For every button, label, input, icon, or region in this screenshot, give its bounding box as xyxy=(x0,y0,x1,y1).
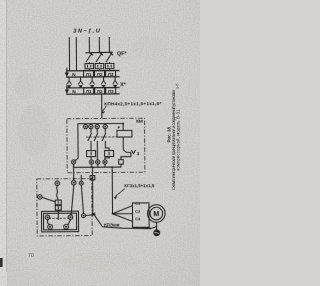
junction node a xyxy=(92,166,94,168)
circuit breaker QF xyxy=(85,52,113,62)
terminal circles top xyxy=(83,124,107,129)
breaker pole box L2 xyxy=(95,63,104,68)
bus wire inside KM bottom xyxy=(74,166,122,168)
wire L1 incoming xyxy=(88,37,90,52)
node fan top of KM xyxy=(83,122,123,124)
cable wire to KM box xyxy=(101,94,103,118)
connector row X xyxy=(67,77,118,89)
wire L3 to strip xyxy=(108,62,110,63)
aux contact KM xyxy=(123,150,139,157)
control terminal top 3 xyxy=(79,181,83,185)
wire contact to thermal 2 xyxy=(105,146,109,151)
wire left terminal to button xyxy=(42,197,55,202)
wire thermal1 down xyxy=(90,157,92,160)
control inner panel xyxy=(41,211,78,232)
gland square at box entry xyxy=(90,176,95,180)
control terminal top 1 xyxy=(55,181,60,186)
wire to coil xyxy=(122,123,124,130)
dark mark left edge xyxy=(0,258,3,267)
wire terminal2 to contact xyxy=(71,185,74,215)
wire L1 to strip xyxy=(88,62,90,63)
bottom circle left xyxy=(48,224,53,229)
wire exit control box xyxy=(86,214,96,215)
contactor main contacts KM xyxy=(86,129,121,147)
paper background xyxy=(0,0,200,286)
splice junction xyxy=(92,213,95,216)
wire N incoming xyxy=(68,37,70,70)
contact circle a xyxy=(45,215,50,220)
square terminal xyxy=(119,160,124,165)
wire from coil xyxy=(122,137,124,150)
terminal circles bottom xyxy=(89,160,107,164)
motor terminal box xyxy=(132,203,149,228)
breaker pole box L3 xyxy=(105,63,114,68)
wire control tap left xyxy=(75,124,83,161)
wire down to control box xyxy=(91,167,93,216)
thermal element 2 xyxy=(105,151,114,157)
control terminal top 2 xyxy=(71,180,76,185)
paper smudges xyxy=(14,36,168,272)
cable label KPN leader xyxy=(102,106,106,112)
bottom circle mid xyxy=(64,224,69,229)
wire L2 to strip xyxy=(98,62,100,63)
exit circle xyxy=(82,214,86,218)
PE arrow strip 2 xyxy=(65,85,69,94)
terminal strip 2 xyxy=(66,88,120,96)
wire aux to terminal square xyxy=(121,152,131,159)
contact circle b xyxy=(68,215,73,220)
thermal element 1 xyxy=(87,151,96,157)
button block SB xyxy=(55,200,61,205)
control box enclosure xyxy=(37,179,92,236)
linkage chain xyxy=(49,217,71,219)
wire L2 incoming xyxy=(98,37,100,52)
wire thermal2 down xyxy=(105,157,109,160)
junction node b xyxy=(111,166,113,168)
terminal strip 1 xyxy=(66,70,120,78)
wire contact b down xyxy=(68,220,71,225)
wire contact to thermal 1 xyxy=(90,146,92,151)
wire thermal return to control box xyxy=(80,175,82,181)
wire PE incoming xyxy=(75,37,77,70)
wire L3 incoming xyxy=(108,37,110,52)
wire left terminal to control box xyxy=(73,164,75,180)
motor M xyxy=(147,205,165,223)
caption rotated xyxy=(167,84,181,190)
flexible wire squiggle xyxy=(56,186,58,200)
breaker pole box L1 xyxy=(85,64,94,69)
wire terminal3 to exit xyxy=(81,185,83,213)
contactor enclosure KM xyxy=(67,118,145,173)
PE arrow strip 1 xyxy=(65,68,69,77)
wire phase mid down xyxy=(96,146,98,160)
coil KM xyxy=(117,130,132,137)
button stem xyxy=(57,210,59,220)
control terminal left xyxy=(38,195,42,199)
motor cable fan xyxy=(112,213,114,215)
ground bolt xyxy=(156,222,158,230)
KG leader xyxy=(115,189,125,197)
wire contact to bottom xyxy=(48,220,50,225)
wire down motor cable xyxy=(111,167,113,214)
terminal circle left bottom xyxy=(71,160,75,164)
cable KPEshv diagonal xyxy=(94,214,157,229)
